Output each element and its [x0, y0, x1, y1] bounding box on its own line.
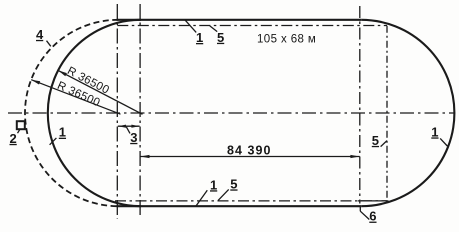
dimension line 84390 [140, 156, 360, 158]
vertical construction line at right arc center x=359.8 [359, 6, 361, 204]
svg-text:1: 1 [196, 30, 203, 45]
leader for label 1 left [50, 138, 57, 145]
track top straight edge [117, 19, 362, 21]
svg-text:5: 5 [230, 176, 237, 191]
dimension "3" extension arrows between x=117.3 and x=140 [118, 125, 140, 127]
outer displaced-curve dashed arc at left end (label 4) [25, 20, 118, 206]
leader for label 3 [126, 127, 130, 134]
svg-text:4: 4 [36, 27, 44, 42]
track bottom straight edge [117, 205, 362, 207]
leader for label 1 bottom [196, 190, 208, 206]
track left end solid semicircle [48, 20, 141, 206]
svg-text:5: 5 [372, 133, 379, 148]
leader for label 5 right [381, 141, 387, 147]
radius line R36500 to dashed arc [31, 80, 120, 115]
svg-text:1: 1 [431, 124, 438, 139]
svg-text:105 x 68 м: 105 x 68 м [257, 34, 316, 46]
leader for label 4 [47, 41, 51, 47]
svg-text:2: 2 [10, 131, 17, 146]
marker square on dashed arc (label 2) [17, 121, 25, 129]
football field right edge (dashed vertical) [386, 26, 388, 204]
leader for label 1 right [440, 138, 447, 146]
vertical construction line at outer-arc center x=117.3 [116, 4, 118, 219]
football field top edge (dash-dot) [117, 25, 387, 27]
svg-text:84 390: 84 390 [227, 143, 272, 157]
leader for label 2 [18, 128, 21, 133]
leader for label 5 top [210, 26, 217, 32]
arrowhead on solid arc radius line [58, 70, 67, 76]
leader for label 6 (vertical tick then slash) [360, 206, 369, 220]
svg-text:1: 1 [210, 177, 217, 192]
svg-text:6: 6 [369, 209, 376, 224]
leader for label 5 bottom [218, 189, 229, 200]
football field bottom edge (dash-dot) [115, 200, 387, 202]
arrowhead on dashed arc radius line [31, 80, 40, 85]
svg-text:3: 3 [130, 130, 137, 145]
leader for label 1 top [185, 20, 196, 32]
svg-text:5: 5 [217, 30, 224, 45]
football field bottom edge solid end run near corner [358, 200, 389, 202]
left arrowhead of 84390 [140, 155, 149, 158]
vertical construction line at inner-arc center x=140 [139, 4, 141, 218]
horizontal centerline [8, 112, 455, 114]
track right end solid semicircle [361, 20, 454, 206]
radius line R36500 to solid arc [58, 70, 142, 114]
svg-text:1: 1 [59, 125, 66, 140]
right arrowhead of 84390 [350, 155, 359, 158]
